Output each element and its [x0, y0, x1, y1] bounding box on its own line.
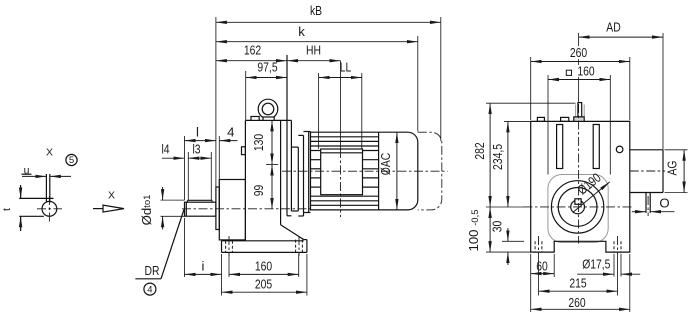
svg-text:ØAC: ØAC	[378, 152, 393, 175]
svg-text:30: 30	[490, 221, 505, 233]
svg-text:162: 162	[244, 43, 261, 58]
svg-text:Ødto1: Ødto1	[139, 195, 154, 226]
svg-text:kB: kB	[310, 3, 322, 18]
svg-text:l3: l3	[192, 142, 200, 157]
svg-text:i: i	[202, 259, 205, 274]
svg-text:234,5: 234,5	[490, 144, 505, 170]
svg-text:97,5: 97,5	[257, 60, 277, 75]
svg-text:AG: AG	[665, 161, 680, 176]
svg-text:X: X	[46, 147, 53, 159]
svg-text:4: 4	[147, 284, 152, 295]
svg-text:l: l	[196, 124, 199, 139]
svg-text:X: X	[108, 190, 115, 202]
svg-text:160: 160	[577, 63, 594, 78]
svg-text:60: 60	[536, 258, 548, 273]
svg-text:u: u	[24, 165, 30, 177]
svg-text:l4: l4	[161, 142, 169, 157]
svg-text:215: 215	[569, 276, 586, 291]
svg-text:LL: LL	[340, 60, 352, 75]
svg-text:99: 99	[251, 185, 266, 197]
svg-text:205: 205	[255, 276, 272, 291]
svg-text:260: 260	[568, 295, 585, 310]
svg-text:5: 5	[69, 155, 74, 166]
svg-text:AD: AD	[606, 20, 620, 35]
svg-text:282: 282	[472, 142, 487, 159]
svg-text:O: O	[659, 196, 669, 211]
svg-text:160: 160	[255, 259, 272, 274]
svg-text:260: 260	[570, 45, 587, 60]
svg-text:100 -0,5: 100 -0,5	[466, 209, 481, 251]
svg-text:4: 4	[227, 124, 234, 139]
svg-text:t: t	[1, 208, 13, 211]
svg-text:HH: HH	[306, 43, 321, 58]
svg-text:DR: DR	[145, 263, 160, 278]
svg-text:130: 130	[251, 134, 266, 151]
svg-text:Ø17,5: Ø17,5	[582, 257, 610, 272]
svg-text:k: k	[298, 24, 305, 39]
